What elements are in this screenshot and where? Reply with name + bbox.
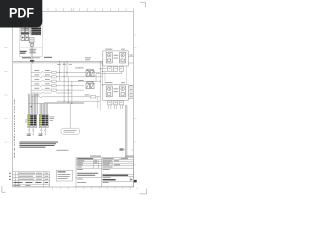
switch S2 xyxy=(25,35,29,41)
label right of X2 xyxy=(50,117,55,121)
U1 terminal T3 xyxy=(119,67,123,71)
wire bundle to X2 xyxy=(40,104,48,115)
U2 terminal T6 xyxy=(119,101,123,105)
U2 terminal T4 xyxy=(108,101,112,105)
riser wires to modules xyxy=(96,63,102,101)
relay K1 in U1 xyxy=(106,52,112,63)
title block texts xyxy=(77,158,132,183)
X1 outgoing wire a xyxy=(28,128,30,136)
title block xyxy=(76,158,133,187)
module output stubs right xyxy=(128,57,133,99)
module U1 box xyxy=(103,51,129,66)
relay box K0 xyxy=(29,38,34,43)
callout box note xyxy=(61,103,80,134)
riser bundle right xyxy=(125,105,127,158)
branch flag xyxy=(120,148,126,151)
cable tag 1 xyxy=(27,134,31,136)
Q2 labels xyxy=(78,79,84,82)
terminal block X1 xyxy=(28,115,37,128)
device box G2 xyxy=(25,26,29,34)
row 7 labels xyxy=(34,94,89,97)
texts above title block xyxy=(90,156,134,157)
revision row numbers xyxy=(9,173,11,180)
relay K2 in U1 xyxy=(120,52,126,63)
circuit row 7 xyxy=(31,96,100,98)
U1 center label xyxy=(114,55,119,59)
ruler ticks left xyxy=(5,48,8,143)
sheet number mark xyxy=(134,180,137,183)
revision row text xyxy=(13,173,48,186)
U2 terminal stubs xyxy=(109,105,123,109)
collector junctions xyxy=(64,101,73,104)
corner mark bottom-left xyxy=(2,186,6,192)
U1 terminal T1 xyxy=(108,67,112,71)
drawing frame xyxy=(13,11,134,187)
X2 outgoing wire a xyxy=(40,128,42,136)
contactor pair Q2 xyxy=(86,82,94,89)
collector bus lower xyxy=(28,101,100,103)
label right of enclosure xyxy=(44,57,52,58)
U1 terminal T2 xyxy=(113,67,117,71)
inter-module wires xyxy=(105,66,127,84)
stub labels xyxy=(129,55,132,98)
U2 center label xyxy=(114,88,119,92)
X1 outgoing wire b xyxy=(32,128,34,136)
module U2 box xyxy=(103,84,129,100)
corner mark top-right xyxy=(140,2,145,7)
page background xyxy=(0,0,149,198)
collector verticals mid xyxy=(60,63,72,104)
right frame tick xyxy=(131,149,133,151)
terminal stripe stack X0 xyxy=(30,26,41,36)
meter P1 xyxy=(30,43,34,47)
standard box ABB xyxy=(57,170,73,181)
bus wire L2 xyxy=(13,62,103,64)
enclosure outline A1 xyxy=(20,13,43,57)
wire labels left of U1 xyxy=(85,57,91,60)
bus junction dots xyxy=(31,61,34,63)
label XP11 xyxy=(20,51,27,54)
label plate xyxy=(29,49,36,54)
ruler ticks right xyxy=(133,35,136,165)
bus tag xyxy=(30,60,34,62)
junction dots mid xyxy=(59,61,103,90)
row 3 labels xyxy=(34,78,49,81)
collector labels xyxy=(57,63,72,66)
riser tails xyxy=(98,97,100,111)
U2 terminal T5 xyxy=(113,101,117,105)
PDF badge xyxy=(0,0,42,28)
U2 labels above xyxy=(105,81,125,84)
Q1 labels xyxy=(78,66,84,69)
cable tag 2 xyxy=(38,134,42,136)
bottom edge ticks xyxy=(53,187,137,189)
bus wire L1 xyxy=(13,61,103,63)
U1 labels above xyxy=(105,48,125,51)
ruler ticks top xyxy=(48,8,133,11)
svg-text:PDF: PDF xyxy=(9,5,34,21)
row 4 labels xyxy=(34,82,49,85)
circuit row 1 xyxy=(31,71,100,73)
circuit row 5 xyxy=(31,89,84,91)
row 5 labels xyxy=(34,87,49,90)
wire bundle to X1 xyxy=(28,94,38,115)
X1 pin labels xyxy=(25,120,27,123)
note above standard box xyxy=(57,149,69,152)
module1 feed horizontals xyxy=(96,69,121,74)
row 2 labels xyxy=(34,74,49,77)
row 1 labels xyxy=(34,69,49,72)
device box G1 xyxy=(21,26,25,34)
notes text xyxy=(20,142,59,148)
circuit row 6 xyxy=(31,92,72,94)
enclosure inner divider xyxy=(20,47,43,49)
margin vertical text xyxy=(14,100,15,158)
module feed junctions xyxy=(100,68,103,81)
switch S1 xyxy=(21,35,25,41)
circuit row 3 xyxy=(31,80,100,82)
corner mark bottom-right xyxy=(139,189,146,194)
relay K4 in U2 xyxy=(120,86,126,97)
circuit row 2 xyxy=(31,76,102,78)
label Componente xyxy=(22,57,40,58)
wire label near U1 xyxy=(75,67,79,70)
bundle tag xyxy=(31,106,32,107)
revision table xyxy=(13,172,50,187)
wire from meter to bus xyxy=(31,47,33,63)
X2 outgoing wire b xyxy=(44,128,46,136)
contactor pair Q1 xyxy=(86,69,94,76)
feeder vertical xyxy=(30,63,32,97)
circuit row 4 xyxy=(31,85,84,87)
terminal block X2 xyxy=(39,115,48,128)
relay K3 in U2 xyxy=(106,86,112,97)
